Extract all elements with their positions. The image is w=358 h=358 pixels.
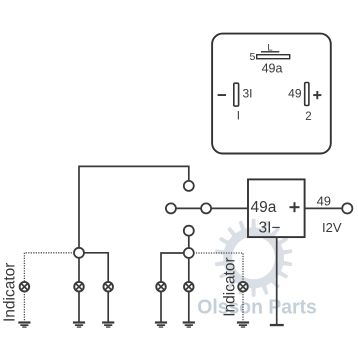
svg-text:3I−: 3I− bbox=[259, 220, 281, 237]
indicator lamp L6 bbox=[238, 282, 248, 292]
terminal blade 49 (right) bbox=[305, 83, 309, 106]
relay terminal label 31- bbox=[259, 220, 281, 237]
wire from lamp feed up-over to flasher L connector bbox=[79, 166, 189, 248]
dashed wire lamp L6 to ground bbox=[242, 292, 244, 322]
ground under L4 bbox=[155, 321, 167, 323]
connector bullet (to right lamp group) bbox=[184, 226, 194, 236]
label Indicator (right) bbox=[222, 257, 239, 316]
terminal label 31 bbox=[243, 87, 253, 101]
wire junction to left lamp of right group bbox=[161, 253, 184, 282]
ground under L3 bbox=[102, 321, 114, 323]
svg-text:I: I bbox=[237, 110, 240, 122]
lamp L4 bbox=[156, 282, 166, 292]
wire lamp L5 to ground bbox=[188, 292, 190, 322]
pin label 2 bbox=[305, 111, 311, 123]
indicator lamp L1 bbox=[20, 282, 30, 292]
terminal label 49a bbox=[262, 62, 283, 76]
wire junction down to lamp L5 bbox=[188, 258, 190, 282]
watermark text Olsson Parts bbox=[197, 296, 316, 319]
relay pinout outline box bbox=[212, 34, 331, 154]
watermark gear logo bbox=[215, 219, 292, 297]
wire junction to right lamp of left group bbox=[84, 253, 109, 282]
dashed wire junction to indicator lamp L1 bbox=[24, 253, 74, 282]
polarity label plus bbox=[313, 91, 321, 99]
ground under L5 bbox=[183, 321, 195, 323]
ground under L2 bbox=[73, 321, 85, 323]
wire lamp L4 to ground bbox=[160, 292, 162, 322]
terminal label 49 bbox=[288, 86, 302, 100]
connector bullet pair left bbox=[166, 203, 176, 213]
terminal blade 49a (top) bbox=[257, 55, 290, 59]
terminal blade 31 (left) bbox=[234, 83, 239, 106]
wire connector to right junction bbox=[188, 235, 190, 248]
wire relay plus to supply bbox=[305, 207, 342, 209]
label Indicator (left) bbox=[2, 263, 19, 322]
lamp L2 bbox=[74, 282, 84, 292]
connector bullet (wire end from L) bbox=[184, 181, 194, 191]
svg-text:49: 49 bbox=[288, 86, 302, 100]
wire between bullet pair bbox=[176, 207, 202, 209]
ground under L1 bbox=[18, 321, 30, 323]
wire relay 31 to ground bbox=[276, 237, 278, 324]
junction node left bbox=[74, 248, 84, 258]
svg-text:Indicator: Indicator bbox=[2, 263, 19, 322]
supply terminal circle bbox=[342, 203, 352, 213]
connector bullet pair right bbox=[201, 203, 211, 213]
wire lamp L2 to ground bbox=[78, 292, 80, 322]
polarity label minus bbox=[218, 94, 226, 96]
svg-text:Indicator: Indicator bbox=[222, 257, 239, 316]
net label 49 bbox=[317, 193, 331, 208]
svg-text:Olsson Parts: Olsson Parts bbox=[197, 296, 316, 319]
terminal label L bbox=[261, 42, 279, 53]
pin label 5 bbox=[249, 51, 255, 63]
dashed wire lamp L1 to ground bbox=[23, 292, 25, 322]
value label 12V bbox=[322, 220, 342, 235]
svg-text:I2V: I2V bbox=[322, 220, 342, 235]
lamp L5 bbox=[184, 282, 194, 292]
wire bullet to relay 49a terminal bbox=[211, 207, 248, 209]
relay terminal label 49a bbox=[251, 199, 277, 216]
relay polarity plus bbox=[290, 202, 300, 212]
svg-text:49a: 49a bbox=[251, 199, 277, 216]
dashed wire junction to indicator lamp L6 bbox=[193, 253, 243, 282]
ground (chassis bar) bbox=[270, 324, 284, 326]
wire lamp L3 to ground bbox=[107, 292, 109, 322]
svg-text:49: 49 bbox=[317, 193, 331, 208]
lamp L3 bbox=[103, 282, 113, 292]
svg-text:2: 2 bbox=[305, 111, 311, 123]
svg-text:49a: 49a bbox=[262, 62, 283, 76]
junction node right bbox=[184, 248, 194, 258]
ground under L6 bbox=[237, 321, 249, 323]
wire junction down to lamp L2 bbox=[78, 257, 80, 282]
svg-text:5: 5 bbox=[249, 51, 255, 63]
flasher relay U1 box bbox=[248, 179, 305, 237]
svg-text:3I: 3I bbox=[243, 87, 253, 101]
pin label 1 bbox=[237, 110, 240, 122]
